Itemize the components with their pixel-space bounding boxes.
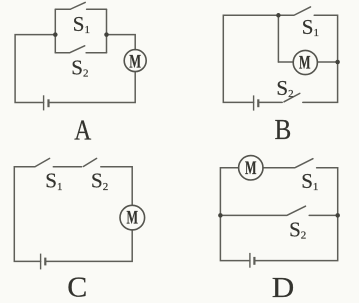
node left junction (circuit A) [53, 32, 58, 37]
switch S2 (circuit D, middle branch) [288, 206, 306, 215]
svg-text:S1: S1 [301, 169, 318, 193]
svg-text:S2: S2 [276, 76, 293, 100]
svg-text:M: M [127, 209, 139, 229]
svg-text:M: M [299, 53, 311, 73]
svg-text:S2: S2 [289, 218, 306, 242]
svg-text:S2: S2 [91, 169, 108, 194]
circuit B: outer loop wires [223, 15, 337, 102]
node right junction (circuit B) [335, 60, 340, 65]
svg-text:S2: S2 [71, 55, 88, 79]
svg-text:A: A [74, 115, 92, 146]
svg-text:M: M [245, 159, 257, 179]
motor M (circuit C) [120, 205, 145, 230]
svg-text:S1: S1 [73, 12, 90, 36]
svg-text:D: D [272, 273, 295, 303]
circuit D: top wire from motor to switch S1 [263, 167, 295, 169]
battery cell (circuit D) [250, 253, 255, 268]
circuit C: outer loop wires [14, 167, 132, 262]
switch S2 (circuit B, bottom) [284, 93, 300, 101]
circuit B: motor branch wires [278, 61, 337, 63]
svg-text:M: M [129, 51, 141, 72]
svg-text:B: B [275, 115, 292, 146]
battery cell (circuit B) [254, 95, 259, 110]
switch S2 (circuit C, top right) [83, 158, 96, 166]
circuit B: vertical wire from top node down to motor branch [277, 15, 279, 62]
switch S1 (circuit D, top) [296, 159, 313, 168]
switch S2 (circuit A, bottom branch) [55, 46, 106, 53]
switch S1 (circuit A, top branch) [55, 2, 106, 9]
svg-text:C: C [67, 273, 87, 303]
circuit D: outer loop wires [220, 168, 337, 261]
circuit A: wire from right node to motor [107, 35, 136, 50]
switch S1 (circuit B, top) [278, 7, 310, 15]
battery cell (circuit A) [44, 95, 49, 110]
battery cell (circuit C) [41, 254, 46, 270]
motor M (circuit D) [239, 156, 263, 180]
svg-text:S1: S1 [45, 169, 62, 194]
node right junction (circuit D) [335, 213, 340, 218]
circuit A: parallel box left vertical wire [54, 9, 56, 52]
motor M (circuit A) [124, 50, 146, 72]
node left junction (circuit D) [218, 213, 223, 218]
svg-text:S1: S1 [302, 15, 319, 39]
node top junction (circuit B) [276, 13, 281, 17]
switch S1 (circuit C, top left) [35, 158, 81, 166]
circuit A: parallel box right vertical wire [106, 9, 108, 52]
circuit D: middle branch wires [220, 214, 337, 216]
motor M (circuit B) [293, 50, 317, 74]
circuit A: outer loop wires (left side and bottom) [15, 35, 135, 103]
node right junction (circuit A) [104, 32, 109, 37]
